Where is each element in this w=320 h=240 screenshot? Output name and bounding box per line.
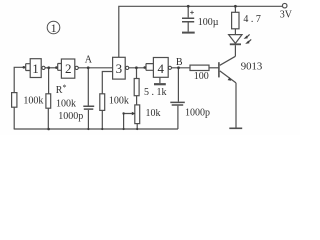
svg-text:4 . 7: 4 . 7 [243,14,261,25]
svg-text:1: 1 [32,61,39,76]
svg-text:10k: 10k [146,108,161,119]
svg-text:R*: R* [56,83,67,96]
svg-text:100k: 100k [56,99,76,110]
svg-text:100k: 100k [23,95,43,106]
svg-text:3V: 3V [280,10,293,21]
svg-text:1000p: 1000p [185,108,210,119]
svg-text:4: 4 [157,61,164,76]
svg-text:100: 100 [194,71,209,82]
svg-text:1000p: 1000p [58,111,83,122]
svg-text:100k: 100k [109,96,129,107]
svg-text:5 . 1k: 5 . 1k [144,87,167,98]
svg-text:9013: 9013 [241,61,263,73]
svg-text:1: 1 [51,21,57,35]
svg-text:B: B [176,57,183,68]
svg-text:2: 2 [65,61,72,76]
svg-text:A: A [85,55,93,66]
svg-text:3: 3 [116,61,123,76]
svg-text:100µ: 100µ [198,17,219,28]
